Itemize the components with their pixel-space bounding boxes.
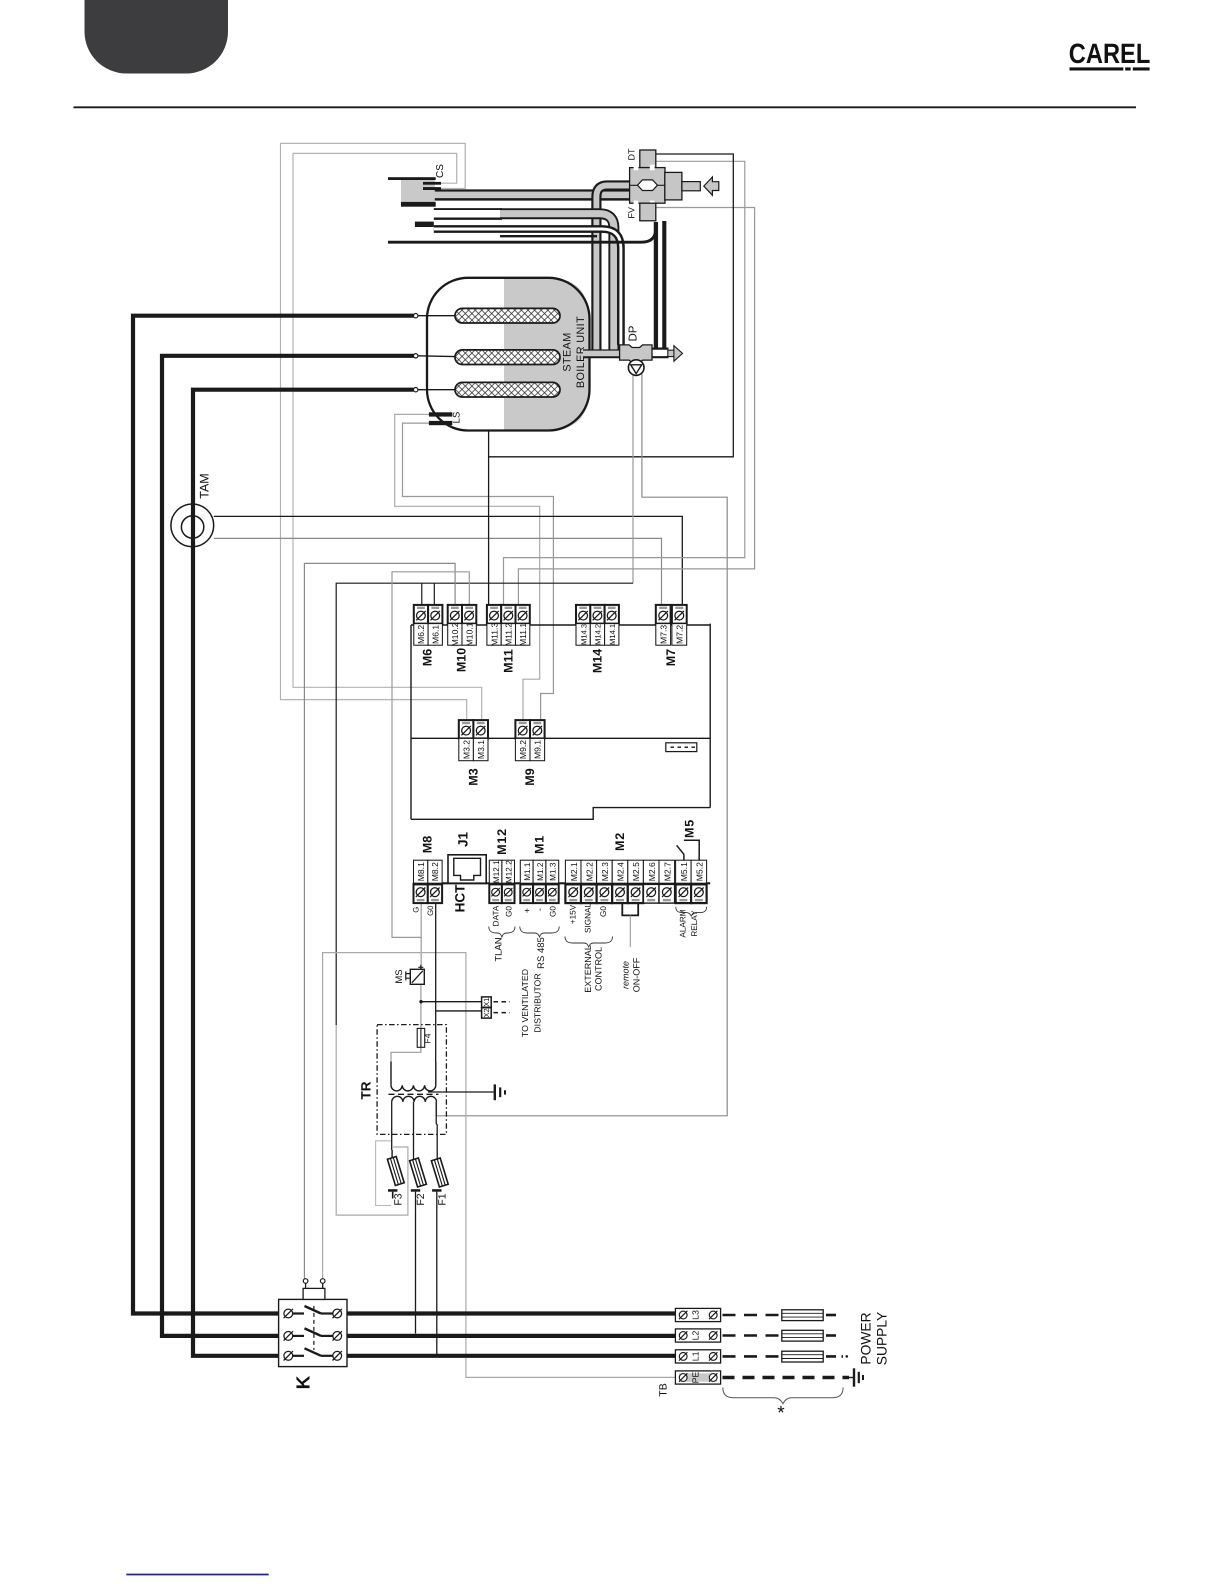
svg-text:-: - — [535, 908, 545, 911]
svg-text:M11.2: M11.2 — [504, 623, 514, 646]
svg-text:M2.7: M2.7 — [662, 862, 672, 881]
svg-text:M1.1: M1.1 — [523, 862, 532, 881]
terminal block M7 — [656, 605, 687, 666]
svg-text:DISTRIBUTOR: DISTRIBUTOR — [533, 973, 543, 1032]
drain tempering valve DT — [627, 148, 656, 168]
terminal block M2 — [565, 832, 674, 933]
svg-text:M14.3: M14.3 — [579, 624, 588, 645]
svg-text:M12.1: M12.1 — [492, 860, 501, 883]
TR primary coil — [391, 1062, 436, 1091]
wire A: DT valve loop to boiler shell and M11.3 — [489, 154, 734, 605]
terminal block TB PE — [658, 1371, 721, 1397]
wire K coil A2 to PE (gray) — [323, 953, 676, 1378]
svg-text:G: G — [411, 907, 420, 913]
header rule — [74, 106, 1137, 108]
svg-text:LS: LS — [452, 412, 463, 424]
wire LS top electrode to M9.2 (gray) — [395, 414, 540, 720]
svg-text:M5: M5 — [683, 819, 697, 838]
water inlet arrow — [704, 177, 719, 195]
svg-text:STEAM: STEAM — [562, 332, 574, 371]
contactor K — [279, 1279, 347, 1390]
svg-text:M8.2: M8.2 — [430, 862, 440, 881]
remote ON-OFF link and label — [620, 903, 641, 992]
level sensor LS — [429, 412, 463, 426]
terminal block M3 — [459, 720, 488, 786]
svg-text:CS: CS — [435, 164, 446, 178]
svg-text:+15V: +15V — [569, 904, 578, 924]
wire F1 bottom to L1 — [436, 1192, 438, 1354]
switch MS — [394, 965, 424, 985]
svg-text:J1: J1 — [456, 832, 471, 848]
terminal block M5 with alarm relay contact — [676, 819, 707, 903]
TAM current transformer — [171, 473, 214, 547]
svg-text:M10.1: M10.1 — [464, 622, 474, 646]
valve right connector — [665, 172, 701, 200]
svg-text:remote: remote — [620, 961, 630, 989]
terminal block TB L3 — [675, 1308, 720, 1321]
wire G0 to X2 and TR primary — [435, 903, 437, 1061]
svg-text:DATA: DATA — [492, 905, 501, 926]
wire net583: F3 riser, M6.2, M6.1 drops — [336, 583, 633, 1215]
svg-text:M1.3: M1.3 — [549, 862, 558, 881]
transformer TR box — [359, 1025, 447, 1135]
svg-text:TR: TR — [359, 1081, 374, 1099]
svg-text:M5.1: M5.1 — [679, 862, 689, 881]
ALARM RELAY brace and label — [676, 907, 707, 938]
K pole 3 — [284, 1348, 342, 1360]
fuse F4 — [417, 1028, 432, 1047]
svg-text:M2: M2 — [613, 832, 627, 851]
svg-text:M14.1: M14.1 — [608, 624, 617, 645]
pipe V2 (hose down to drain fitting) — [500, 214, 614, 350]
wire M10.1 to G terminal and MS switch — [391, 572, 469, 1062]
svg-text:M9.2: M9.2 — [518, 740, 528, 759]
svg-text:G0: G0 — [426, 905, 435, 916]
svg-text:TB: TB — [658, 1383, 670, 1396]
svg-text:M2.2: M2.2 — [584, 862, 594, 881]
terminals X1 X2 to ventilated distributor — [482, 969, 543, 1037]
RS 485 brace and label — [520, 927, 559, 969]
svg-text:TO VENTILATED: TO VENTILATED — [520, 969, 530, 1037]
K pole 2 — [284, 1328, 342, 1340]
svg-text:DP: DP — [628, 325, 640, 341]
svg-text:TAM: TAM — [198, 473, 212, 498]
terminal block M9 — [515, 720, 544, 786]
svg-text:SIGNAL: SIGNAL — [584, 903, 593, 933]
svg-text:F1: F1 — [437, 1193, 449, 1205]
wire X1 tap with junction — [419, 1000, 481, 1003]
svg-text:M3.1: M3.1 — [476, 740, 486, 759]
TLAN brace and label — [489, 927, 515, 962]
svg-text:M6: M6 — [421, 649, 435, 666]
power fuse L3 — [723, 1310, 841, 1321]
svg-text:HCT: HCT — [453, 884, 468, 912]
svg-text:K: K — [294, 1375, 315, 1389]
drain pump symbol — [628, 360, 644, 376]
gray box around F3 — [376, 1141, 391, 1206]
wire X2 tap — [436, 1010, 482, 1012]
svg-text:DT: DT — [627, 148, 637, 160]
fuse F1 — [431, 1158, 448, 1206]
pipe P3 (white pipe to drain) — [415, 222, 621, 345]
TR secondary coil with taps — [392, 1096, 438, 1159]
conductivity sensor CS — [388, 164, 446, 207]
svg-text:+: + — [522, 908, 532, 913]
svg-text:M2.6: M2.6 — [647, 862, 657, 881]
wire CS electrode 2 to M3.1 (shielded, gray) — [293, 153, 482, 720]
terminal block M8 (G, G0) — [411, 836, 442, 916]
wire TAM gray output to M7.3 — [214, 538, 662, 605]
wire DP fitting to TR secondary right (long loop) — [437, 360, 728, 1116]
svg-text:PE: PE — [691, 1372, 701, 1384]
svg-text:RELAY: RELAY — [690, 910, 699, 937]
valve body with lens — [630, 165, 665, 207]
svg-text:M5.2: M5.2 — [695, 862, 705, 881]
fill valve FV port — [627, 203, 656, 221]
svg-text:MS: MS — [394, 969, 405, 983]
heater element 3 — [414, 382, 561, 397]
svg-text:M9: M9 — [523, 768, 537, 785]
terminal block M11 — [487, 605, 530, 673]
terminal block M10 — [448, 605, 477, 672]
svg-text:G0: G0 — [599, 906, 608, 917]
terminal block M12 — [489, 828, 514, 926]
wire F2 bottom to L2 — [415, 1192, 417, 1334]
wire TAM black output to M7.2 — [214, 516, 683, 605]
heater element 1 — [414, 308, 561, 323]
svg-text:M11: M11 — [502, 649, 516, 673]
svg-text:M1.2: M1.2 — [536, 862, 545, 881]
EXTERNAL CONTROL brace and label — [565, 937, 613, 993]
svg-text:FV: FV — [627, 207, 637, 219]
svg-text:M10: M10 — [455, 648, 469, 672]
K pole 1 — [284, 1306, 342, 1318]
svg-text:M3: M3 — [467, 768, 481, 785]
svg-text:M6.2: M6.2 — [416, 625, 426, 644]
svg-text:M8: M8 — [421, 836, 435, 853]
PE dashed line and ground — [723, 1368, 864, 1386]
svg-text:ON-OFF: ON-OFF — [631, 957, 641, 992]
svg-text:M3.2: M3.2 — [462, 740, 472, 759]
svg-text:F4: F4 — [423, 1033, 433, 1043]
svg-text:X2: X2 — [482, 1008, 491, 1017]
wire DT solenoid to M11.2 (gray) — [504, 161, 745, 605]
svg-text:M7.2: M7.2 — [675, 625, 685, 644]
power fuse L2 — [723, 1330, 841, 1341]
svg-text:CONTROL: CONTROL — [594, 947, 604, 991]
power supply brace and asterisk — [723, 1388, 843, 1425]
logo blob — [85, 0, 229, 74]
svg-text:RS 485: RS 485 — [536, 937, 547, 969]
svg-text:M12: M12 — [495, 828, 509, 855]
svg-text:ALARM: ALARM — [679, 909, 688, 937]
svg-text:G0: G0 — [548, 906, 557, 917]
TR ground connection — [428, 1084, 505, 1100]
POWER SUPPLY label — [859, 1312, 890, 1365]
drain pump DP assembly — [583, 325, 652, 363]
svg-text:L2: L2 — [691, 1331, 701, 1341]
terminal block M14 — [576, 605, 619, 673]
svg-text:F2: F2 — [415, 1193, 427, 1205]
terminal block TB L2 — [675, 1329, 720, 1342]
footer blue line — [126, 1574, 268, 1576]
svg-text:M12.2: M12.2 — [505, 860, 514, 883]
svg-text:M11.1: M11.1 — [518, 623, 528, 646]
thick heater wire 3 — [193, 390, 675, 1356]
svg-text:M1: M1 — [533, 835, 547, 854]
svg-text:M8.1: M8.1 — [416, 862, 426, 881]
svg-text:M9.1: M9.1 — [533, 740, 543, 759]
pipe P4 (overflow to FV pipe) — [388, 221, 664, 348]
svg-text:M2.5: M2.5 — [631, 862, 641, 881]
wire M10.2 to K coil A1 — [304, 563, 455, 1281]
svg-text:M2.3: M2.3 — [600, 862, 610, 881]
svg-text:G0: G0 — [504, 906, 513, 917]
svg-text:CAREL: CAREL — [1069, 38, 1151, 69]
thick heater wire 2 — [162, 356, 675, 1336]
controller board outline — [411, 624, 710, 884]
fuse F3 — [387, 1150, 404, 1206]
4-pin connector — [666, 743, 697, 752]
svg-text:M2.1: M2.1 — [569, 862, 579, 881]
svg-text:X1: X1 — [482, 998, 491, 1007]
svg-text:M14: M14 — [591, 649, 605, 673]
svg-text:M10.2: M10.2 — [450, 622, 460, 646]
steam hose bundle (boiler to valve) — [434, 191, 630, 219]
svg-text:TLAN: TLAN — [493, 937, 504, 961]
svg-text:F3: F3 — [393, 1193, 405, 1205]
drain outlet pipe and arrow — [652, 346, 683, 362]
svg-text:M7.3: M7.3 — [659, 625, 669, 644]
svg-text:SUPPLY: SUPPLY — [875, 1312, 890, 1365]
svg-text:L1: L1 — [691, 1351, 701, 1361]
svg-text:POWER: POWER — [859, 1312, 874, 1364]
terminal block M6 — [414, 605, 443, 666]
terminal block M1 — [520, 835, 558, 917]
steam boiler unit tank — [427, 278, 590, 431]
terminal block TB L1 — [675, 1350, 720, 1363]
CAREL logo — [1069, 38, 1151, 71]
TR core — [389, 1093, 439, 1095]
wire FV solenoid to M11.1 (gray) — [518, 208, 754, 606]
fuse F2 — [410, 1158, 427, 1206]
svg-text:M7: M7 — [664, 649, 678, 666]
thick heater wire 1: K pole1 to heater 1 and TB L3 — [133, 316, 675, 1314]
wire LS bottom electrode to M9.1 (gray) — [403, 423, 554, 720]
svg-text:M6.1: M6.1 — [431, 625, 441, 644]
wire DP pump to net 583 (gray) — [632, 375, 634, 583]
wire CS electrode 1 to M3.2 (shielded, gray) — [281, 143, 467, 720]
svg-text:EXTERNAL: EXTERNAL — [583, 945, 593, 993]
svg-text:M2.4: M2.4 — [616, 862, 626, 881]
svg-text:L3: L3 — [691, 1310, 701, 1320]
svg-text:*: * — [777, 1403, 785, 1424]
power fuse L1 — [723, 1351, 849, 1362]
pipe V1 (riser to DT/FV valve) — [596, 186, 631, 352]
svg-text:M14.2: M14.2 — [594, 624, 603, 645]
svg-text:M11.3: M11.3 — [489, 623, 499, 646]
heater element 2 — [414, 350, 561, 365]
connector J1 / HCT — [448, 832, 486, 913]
